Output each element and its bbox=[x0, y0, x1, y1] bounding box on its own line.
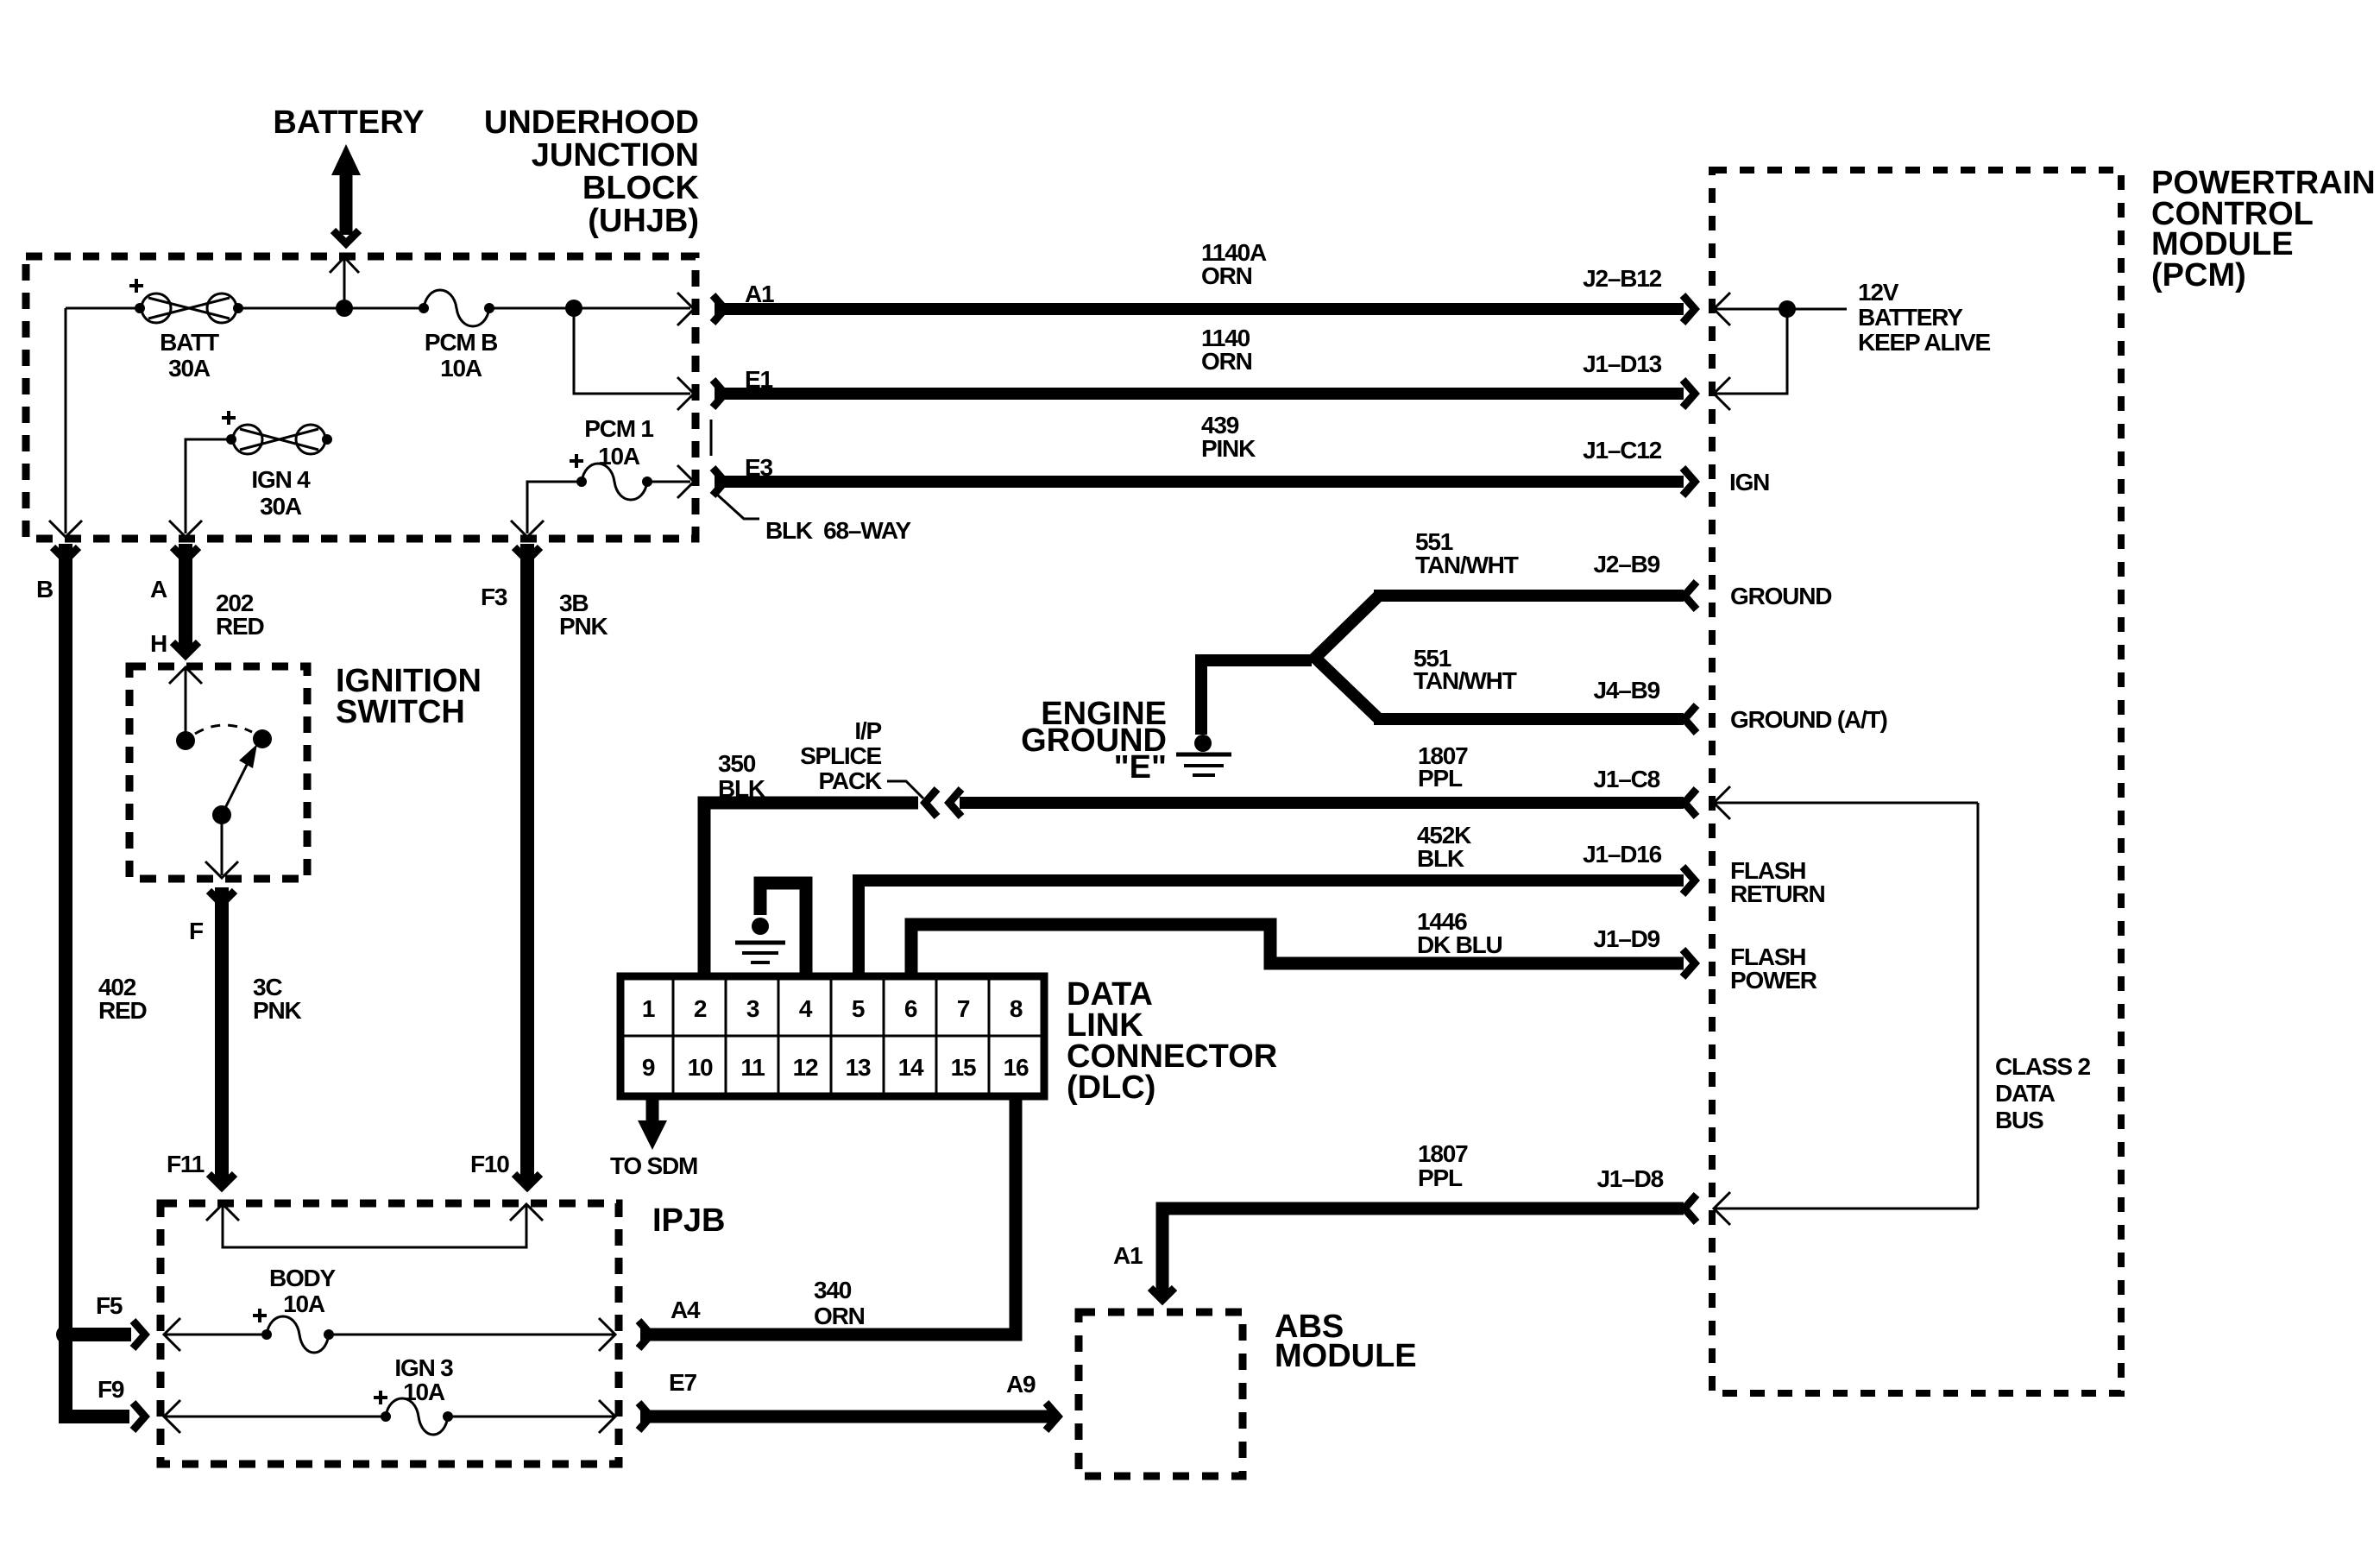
svg-text:DK BLU: DK BLU bbox=[1417, 931, 1502, 958]
wire PCM1 fuse to F3 terminal bbox=[527, 482, 690, 533]
fuse PCM 1 10A bbox=[570, 454, 652, 500]
svg-text:IGN: IGN bbox=[1729, 469, 1769, 495]
fusible link BATT 30A bbox=[129, 279, 243, 323]
svg-text:BLOCK: BLOCK bbox=[582, 170, 700, 206]
wire IGN4 to A terminal bbox=[186, 439, 231, 533]
svg-text:BLK: BLK bbox=[718, 775, 765, 802]
terminal arrow F10 bbox=[510, 1204, 543, 1221]
wire E1 tap down and right bbox=[574, 308, 690, 394]
svg-text:5: 5 bbox=[852, 995, 865, 1022]
callout line splice pack bbox=[887, 781, 923, 798]
PCM dashed box bbox=[1712, 170, 2121, 1393]
wire 340 ORN from A4 to DLC pin 16 bbox=[640, 1096, 1016, 1335]
svg-text:ORN: ORN bbox=[1201, 262, 1252, 289]
svg-text:F5: F5 bbox=[96, 1292, 123, 1319]
terminal arrow E7 out of IPJB bbox=[599, 1400, 615, 1433]
terminal arrow F3 at UHJB bottom bbox=[511, 521, 544, 537]
svg-text:BATTERY: BATTERY bbox=[273, 104, 424, 141]
svg-text:F3: F3 bbox=[481, 584, 507, 610]
svg-text:BATTERY: BATTERY bbox=[1858, 304, 1963, 331]
svg-text:16: 16 bbox=[1004, 1054, 1029, 1081]
node junction dot at battery tap bbox=[336, 300, 353, 317]
terminal arrow B at UHJB bottom bbox=[49, 521, 82, 537]
terminal arrow F11 bbox=[206, 1204, 239, 1221]
svg-text:10A: 10A bbox=[440, 355, 482, 382]
wire A1 1140A ORN bbox=[715, 303, 1684, 315]
pin arrow J2-B12 bbox=[1714, 293, 1730, 325]
node dot F5 tap bbox=[56, 1325, 75, 1344]
svg-text:KEEP ALIVE: KEEP ALIVE bbox=[1858, 329, 1990, 356]
wire battery tap up bbox=[343, 259, 346, 308]
terminal arrow out of ignition switch bbox=[205, 861, 238, 878]
svg-text:7: 7 bbox=[957, 995, 970, 1022]
svg-text:A: A bbox=[150, 576, 167, 603]
svg-text:J2–B12: J2–B12 bbox=[1583, 265, 1662, 292]
switch throw dashed arc bbox=[195, 725, 252, 734]
svg-text:(DLC): (DLC) bbox=[1067, 1070, 1155, 1106]
svg-text:J2–B9: J2–B9 bbox=[1593, 551, 1659, 577]
svg-text:30A: 30A bbox=[168, 355, 211, 382]
svg-text:F11: F11 bbox=[167, 1151, 205, 1177]
junction block UHJB dashed box bbox=[26, 256, 696, 539]
wire 12V battery keep alive bbox=[1714, 309, 1847, 394]
pin arrow J1-D8 bbox=[1714, 1192, 1730, 1225]
terminal arrow into ignition switch bbox=[169, 667, 202, 684]
svg-text:J1–D16: J1–D16 bbox=[1583, 841, 1662, 868]
connector DLC outer box bbox=[620, 976, 1044, 1096]
wire 1446 DK BLU from DLC pin 6 to J1-D9 bbox=[911, 924, 1684, 976]
node switch contact H bbox=[176, 731, 195, 750]
callout line BLK 68-WAY bbox=[716, 494, 759, 519]
wire F11-F10 link bbox=[223, 1204, 526, 1247]
wire 551 TAN/WHT to J2-B9 bbox=[1374, 590, 1684, 602]
pin arrow J1-D13 bbox=[1714, 377, 1730, 410]
svg-text:BLK 68–WAY: BLK 68–WAY bbox=[765, 517, 911, 544]
svg-text:2: 2 bbox=[694, 995, 707, 1022]
svg-text:J4–B9: J4–B9 bbox=[1593, 677, 1659, 704]
svg-text:E7: E7 bbox=[669, 1369, 696, 1396]
svg-text:I/P: I/P bbox=[854, 717, 881, 744]
svg-text:IGN 4: IGN 4 bbox=[251, 466, 311, 493]
wire B stub down left side bbox=[66, 544, 129, 1417]
wire E7 to A9 bbox=[640, 1410, 1053, 1423]
svg-text:340: 340 bbox=[814, 1277, 852, 1303]
svg-text:(UHJB): (UHJB) bbox=[588, 203, 699, 239]
svg-text:PNK: PNK bbox=[253, 997, 301, 1024]
splice pack chevrons bbox=[925, 789, 937, 817]
svg-text:RED: RED bbox=[98, 997, 147, 1024]
svg-text:3: 3 bbox=[746, 995, 759, 1022]
terminal arrow E1 out bbox=[677, 377, 694, 410]
svg-text:8: 8 bbox=[1010, 995, 1023, 1022]
wire E1 1140 ORN bbox=[715, 388, 1684, 400]
svg-text:CLASS 2: CLASS 2 bbox=[1995, 1053, 2090, 1080]
svg-text:1807: 1807 bbox=[1418, 1140, 1468, 1167]
svg-text:(PCM): (PCM) bbox=[2151, 257, 2246, 293]
svg-text:SPLICE: SPLICE bbox=[800, 742, 881, 769]
svg-text:A4: A4 bbox=[671, 1297, 701, 1323]
svg-text:TAN/WHT: TAN/WHT bbox=[1414, 667, 1517, 694]
svg-text:J1–C8: J1–C8 bbox=[1593, 766, 1659, 792]
IPJB dashed box bbox=[161, 1203, 619, 1464]
svg-text:J1–D13: J1–D13 bbox=[1583, 350, 1662, 377]
wire left branch to B bbox=[65, 308, 67, 533]
svg-text:IGN 3: IGN 3 bbox=[394, 1354, 453, 1381]
svg-text:BATT: BATT bbox=[160, 329, 219, 356]
svg-text:ORN: ORN bbox=[814, 1303, 865, 1329]
wire main feed inside UHJB bbox=[66, 307, 690, 310]
svg-text:9: 9 bbox=[642, 1054, 655, 1081]
svg-text:A1: A1 bbox=[1113, 1242, 1143, 1269]
svg-text:PPL: PPL bbox=[1418, 1164, 1463, 1191]
battery arrow (thick, to BATTERY) bbox=[331, 144, 361, 243]
wire 350 BLK from DLC pin 2 bbox=[704, 803, 918, 976]
node junction dot at E1 tap bbox=[565, 300, 582, 317]
svg-text:13: 13 bbox=[846, 1054, 871, 1081]
svg-text:TAN/WHT: TAN/WHT bbox=[1415, 552, 1519, 578]
svg-text:BUS: BUS bbox=[1995, 1107, 2043, 1133]
svg-text:POWER: POWER bbox=[1730, 967, 1817, 994]
svg-text:IPJB: IPJB bbox=[652, 1202, 725, 1239]
fusible link IGN 4 30A bbox=[222, 411, 332, 454]
node switch contact F bbox=[212, 805, 231, 824]
wire F stub bbox=[215, 887, 229, 1183]
svg-text:11: 11 bbox=[740, 1054, 765, 1081]
terminal arrow A at UHJB bottom bbox=[169, 521, 202, 537]
svg-text:F9: F9 bbox=[98, 1376, 124, 1403]
wire class 2 data bus bbox=[1714, 803, 1978, 1208]
wire 551 TAN/WHT to J4-B9 bbox=[1374, 713, 1684, 725]
node switch contact right bbox=[253, 729, 272, 748]
svg-text:JUNCTION: JUNCTION bbox=[532, 137, 699, 174]
svg-text:6: 6 bbox=[904, 995, 917, 1022]
svg-text:SWITCH: SWITCH bbox=[336, 694, 465, 730]
svg-text:4: 4 bbox=[799, 995, 813, 1022]
wire F3 long stub bbox=[520, 544, 534, 1183]
wire 1807 PPL to J1-C8 bbox=[960, 797, 1684, 809]
svg-text:RED: RED bbox=[216, 613, 264, 640]
ABS module dashed box bbox=[1079, 1312, 1243, 1476]
svg-text:ORN: ORN bbox=[1201, 348, 1252, 375]
ignition switch dashed box bbox=[129, 666, 307, 879]
terminal arrow up to battery bbox=[330, 257, 359, 273]
chevron F9 stub end bbox=[133, 1403, 145, 1430]
node dot keep alive bbox=[1779, 300, 1796, 318]
terminal arrow F9 into IPJB bbox=[164, 1400, 180, 1433]
wire A stub bbox=[179, 544, 192, 653]
svg-text:10: 10 bbox=[688, 1054, 713, 1081]
svg-text:F: F bbox=[189, 918, 204, 944]
connector tick BLK 68-WAY bbox=[710, 420, 713, 456]
svg-text:TO SDM: TO SDM bbox=[610, 1152, 697, 1179]
svg-text:350: 350 bbox=[718, 750, 756, 777]
fuse IGN 3 10A bbox=[164, 1391, 614, 1435]
svg-text:15: 15 bbox=[951, 1054, 976, 1081]
svg-text:12V: 12V bbox=[1858, 279, 1899, 306]
svg-text:BLK: BLK bbox=[1417, 845, 1464, 872]
svg-text:BODY: BODY bbox=[269, 1265, 337, 1291]
fuse PCM B 10A bbox=[419, 290, 494, 326]
ground symbol engine ground E bbox=[1176, 735, 1231, 775]
wire F5 stub bbox=[66, 1328, 131, 1341]
wire 551 fork bbox=[1315, 596, 1379, 719]
svg-text:PPL: PPL bbox=[1418, 765, 1463, 792]
svg-text:B: B bbox=[36, 576, 53, 603]
svg-text:J1–D8: J1–D8 bbox=[1596, 1165, 1663, 1192]
svg-text:10A: 10A bbox=[598, 443, 640, 470]
svg-text:1: 1 bbox=[642, 995, 655, 1022]
svg-text:10A: 10A bbox=[283, 1290, 325, 1317]
svg-text:PCM 1: PCM 1 bbox=[584, 415, 653, 442]
svg-text:DATA: DATA bbox=[1995, 1080, 2056, 1107]
svg-text:GROUND (A/T): GROUND (A/T) bbox=[1730, 706, 1887, 733]
terminal arrow A1 out bbox=[677, 293, 694, 325]
wire engine ground leg bbox=[1201, 660, 1312, 735]
svg-text:UNDERHOOD: UNDERHOOD bbox=[484, 104, 699, 141]
svg-text:H: H bbox=[150, 630, 167, 657]
terminal arrow F5 into IPJB bbox=[164, 1318, 180, 1351]
wire switch output bbox=[221, 815, 224, 875]
ground symbol at DLC pin 4 bbox=[735, 883, 806, 976]
svg-text:RETURN: RETURN bbox=[1730, 880, 1824, 907]
terminal arrow A4 out of IPJB bbox=[599, 1318, 615, 1351]
svg-text:"E": "E" bbox=[1114, 749, 1167, 786]
svg-text:J1–C12: J1–C12 bbox=[1583, 437, 1662, 464]
wire switch input bbox=[185, 667, 187, 732]
svg-text:A9: A9 bbox=[1006, 1371, 1036, 1398]
svg-text:14: 14 bbox=[898, 1054, 924, 1081]
svg-text:PCM B: PCM B bbox=[425, 329, 497, 356]
switch lever arrow bbox=[222, 760, 249, 815]
svg-text:GROUND: GROUND bbox=[1730, 583, 1832, 609]
wire 452K BLK from DLC pin 5 to J1-D16 bbox=[859, 880, 1684, 976]
svg-text:PNK: PNK bbox=[559, 613, 608, 640]
svg-text:F10: F10 bbox=[470, 1151, 509, 1177]
svg-text:J1–D9: J1–D9 bbox=[1593, 925, 1659, 952]
pin arrow J1-C8 bbox=[1714, 786, 1730, 819]
arrow TO SDM bbox=[638, 1096, 667, 1150]
svg-text:PINK: PINK bbox=[1201, 435, 1256, 462]
wire 1807 PPL to ABS J1-D8 bbox=[1162, 1208, 1684, 1295]
wire E3 439 PINK bbox=[715, 476, 1684, 488]
svg-text:30A: 30A bbox=[260, 493, 302, 520]
svg-text:MODULE: MODULE bbox=[1275, 1338, 1417, 1374]
svg-text:PACK: PACK bbox=[819, 767, 882, 794]
svg-text:12: 12 bbox=[793, 1054, 818, 1081]
svg-text:10A: 10A bbox=[403, 1379, 445, 1405]
connector DLC grid lines bbox=[624, 980, 1041, 1093]
terminal arrow E3 out bbox=[677, 465, 694, 498]
fuse BODY 10A bbox=[164, 1309, 614, 1353]
